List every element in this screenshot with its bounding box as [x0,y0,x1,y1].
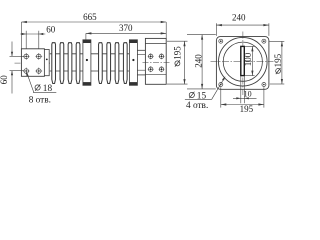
hole bottom-right of left flange [35,68,42,75]
corner hole top-right [262,39,266,43]
label d18 8 holes leader [26,72,56,93]
dimension 60 top [20,31,45,49]
hole top-right of box [159,53,165,59]
middle block [83,40,91,86]
corner hole bottom-left [219,83,223,87]
outer circle [219,37,268,86]
conductor bar cross-section [241,46,245,75]
wire centerline stub left of flange [15,62,51,64]
svg-text:60: 60 [0,75,9,85]
hole bottom-left of left flange [23,68,30,75]
right block [129,40,137,86]
svg-text:195: 195 [273,53,283,67]
dimension 240 left of square [187,35,216,89]
insulator shed 2 [60,43,64,84]
svg-text:4 отв.: 4 отв. [186,101,208,111]
centerline horizontal of front view [211,61,274,63]
insulator shed 7 [115,43,119,84]
corner hole top-left [219,39,223,43]
label d15 4 holes leader [185,76,226,99]
svg-text:195: 195 [240,104,254,114]
dimension 10 bottom [233,76,257,103]
hole bottom-right of box [159,66,165,72]
svg-text:240: 240 [193,54,203,68]
insulator shed 3 [68,43,72,84]
collar next to left flange [44,50,49,76]
svg-text:8 отв.: 8 отв. [29,96,51,106]
hole bottom-left of box [148,66,154,72]
right terminal box [145,38,166,84]
dimension 100 [245,46,255,75]
hole top-right of left flange [35,53,42,60]
hole top-left of box [148,53,154,59]
tube upper line [50,53,138,55]
svg-text:10: 10 [244,90,252,99]
dimension d195 right [269,41,284,84]
tube lower line [50,70,138,72]
dimension 665 [21,21,166,49]
diameter symbol of d195 right [276,68,281,74]
insulator shed 8 [123,43,127,84]
diameter symbol of d15 [189,92,194,99]
insulator shed 4 [76,43,80,84]
right stub cylinder [137,50,146,75]
hole top-left of left flange [23,53,30,60]
dimension 370 [86,32,166,40]
diameter symbol of d195 left [175,60,180,66]
dimension 240 top [216,23,269,36]
left flange plate [21,49,44,77]
svg-text:60: 60 [46,24,56,34]
svg-text:370: 370 [119,23,133,33]
diameter symbol of d18 [35,84,40,91]
centerline through terminal box [143,62,171,64]
dimension d195 left view [167,41,188,84]
centerline vertical of front view [242,32,244,96]
svg-text:18: 18 [43,84,53,94]
svg-text:240: 240 [232,13,246,23]
insulator shed 5 [99,43,103,84]
svg-text:100: 100 [243,52,253,66]
square flange front view [216,37,269,90]
insulator shed 1 [52,43,56,84]
corner hole bottom-right [262,83,266,87]
insulator shed 6 [107,43,111,84]
svg-text:15: 15 [197,91,207,101]
svg-text:665: 665 [83,12,97,22]
dimension 60 vertical left [10,42,24,94]
dimension 195 bottom [221,87,264,107]
svg-text:195: 195 [173,46,183,60]
inner circle [223,42,262,81]
